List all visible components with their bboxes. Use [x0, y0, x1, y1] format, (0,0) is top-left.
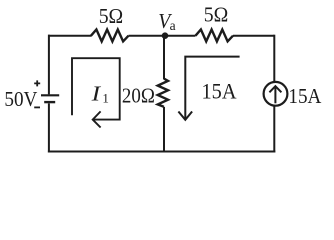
node Va label — [158, 9, 175, 33]
branch current arrow 15A (down) — [178, 57, 239, 120]
wire right lower segment — [273, 106, 275, 153]
wire middle upper segment — [163, 36, 165, 79]
svg-text:15A: 15A — [288, 84, 321, 108]
label 15A (branch current) — [202, 78, 237, 103]
label 20Ω — [122, 83, 155, 107]
label 5Ω (left resistor) — [99, 4, 124, 28]
svg-text:15A: 15A — [202, 78, 237, 103]
voltage source 50V battery short plate — [44, 101, 55, 103]
resistor 5Ω top-left — [91, 30, 129, 42]
resistor 5Ω top-right — [196, 30, 234, 42]
svg-text:50V: 50V — [4, 87, 37, 111]
battery plus sign — [34, 80, 40, 86]
wire middle lower segment — [163, 107, 165, 153]
node Va dot — [162, 32, 169, 39]
label 50V — [4, 87, 37, 111]
wire left upper segment — [48, 35, 50, 95]
battery minus sign — [34, 106, 40, 108]
svg-text:a: a — [170, 18, 176, 33]
label 15A (current source) — [288, 84, 321, 108]
label 5Ω (right resistor) — [204, 2, 229, 26]
svg-text:5Ω: 5Ω — [99, 4, 124, 28]
svg-text:I: I — [90, 81, 101, 105]
wire top-left segment — [48, 35, 92, 37]
voltage source 50V battery long plate — [41, 94, 59, 96]
current source arrow (up) — [269, 86, 281, 103]
mesh current I1 loop — [72, 58, 120, 127]
svg-text:1: 1 — [102, 91, 109, 106]
wire top-middle segment — [129, 35, 196, 37]
current source 15A circle — [264, 82, 288, 106]
wire top-right segment — [233, 35, 274, 37]
resistor 20Ω vertical — [158, 79, 168, 107]
svg-text:20Ω: 20Ω — [122, 83, 155, 107]
wire left lower segment — [48, 103, 50, 152]
wire bottom — [48, 151, 275, 153]
svg-text:5Ω: 5Ω — [204, 2, 229, 26]
label I1 — [90, 81, 108, 105]
wire right upper segment — [273, 35, 275, 81]
